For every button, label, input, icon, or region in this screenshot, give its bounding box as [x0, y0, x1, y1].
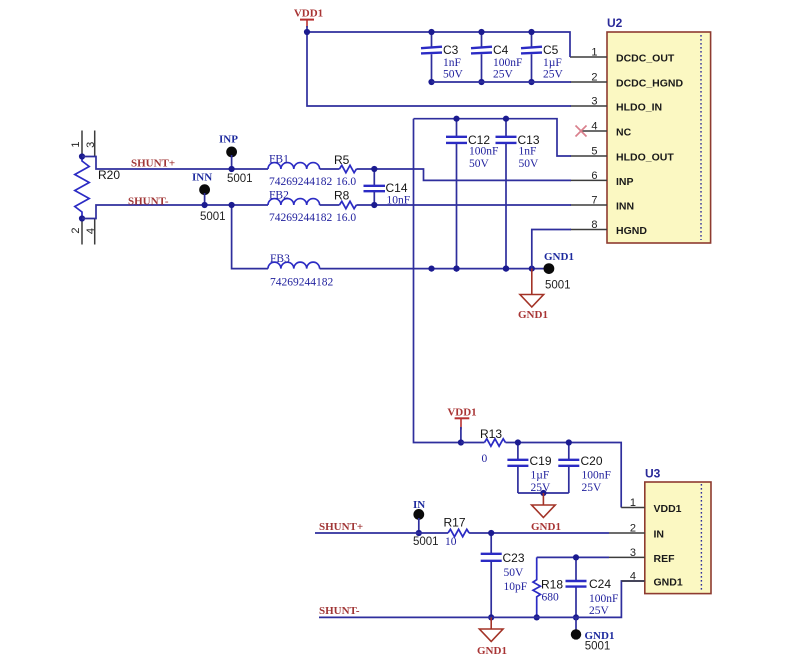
- U3 pin 2 IN: [609, 523, 664, 541]
- node INP: [219, 134, 253, 186]
- resistor R18: [533, 557, 563, 617]
- IC U3 body: [645, 467, 711, 594]
- svg-text:FB3: FB3: [270, 253, 290, 265]
- wire VDD1 top bus to U2 pin1: [307, 32, 570, 57]
- svg-text:1: 1: [591, 47, 597, 59]
- svg-text:R13: R13: [480, 427, 502, 441]
- node VDD1 bus junction: [304, 29, 310, 35]
- U2 pin 5 HLDO_OUT: [570, 146, 674, 164]
- svg-text:R8: R8: [334, 189, 350, 203]
- svg-text:0: 0: [482, 453, 488, 465]
- wire R8 out to U2 pin7: [356, 204, 571, 206]
- wire VDD1 vertical down to HLDO_IN row: [307, 32, 571, 106]
- svg-text:5001: 5001: [227, 173, 253, 185]
- svg-text:1: 1: [630, 497, 636, 509]
- node GND bus junctions: [428, 266, 535, 272]
- wire SHUNT+ (bottom) to R17: [315, 532, 448, 534]
- wire R17 out to U3 pin2: [469, 532, 609, 534]
- svg-text:1µF: 1µF: [531, 470, 550, 482]
- ferrite bead FB3: [268, 253, 334, 289]
- svg-text:50V: 50V: [443, 69, 464, 81]
- svg-text:HLDO_OUT: HLDO_OUT: [616, 152, 674, 164]
- svg-text:25V: 25V: [589, 605, 610, 617]
- U3 pin 4 GND1: [621, 571, 682, 589]
- svg-text:HGND: HGND: [616, 225, 647, 237]
- IC U2 body: [607, 16, 711, 243]
- ground symbol GND1 (middle): [531, 493, 561, 533]
- svg-text:100nF: 100nF: [582, 470, 611, 482]
- svg-text:IN: IN: [654, 529, 665, 541]
- ground symbol GND1 (upper): [518, 269, 548, 321]
- svg-text:SHUNT+: SHUNT+: [131, 158, 175, 170]
- svg-text:NC: NC: [616, 127, 632, 139]
- node INN: [192, 172, 226, 224]
- svg-text:5001: 5001: [413, 536, 439, 548]
- svg-text:3: 3: [630, 547, 636, 559]
- svg-text:C20: C20: [581, 454, 603, 468]
- wire long vertical from C12 bus down to R13 row: [414, 119, 461, 443]
- capacitor C24: [566, 554, 619, 620]
- svg-text:IN: IN: [413, 499, 425, 511]
- svg-text:SHUNT-: SHUNT-: [128, 196, 169, 208]
- svg-text:C5: C5: [543, 43, 559, 57]
- wire C19/C20 bottom bus: [518, 492, 569, 494]
- svg-text:10: 10: [445, 536, 457, 548]
- resistor R8: [334, 189, 356, 225]
- svg-text:50V: 50V: [519, 158, 540, 170]
- svg-text:100nF: 100nF: [589, 593, 618, 605]
- svg-text:4: 4: [591, 121, 597, 133]
- wire R5 out to pin6 jog: [356, 169, 571, 180]
- svg-text:REF: REF: [654, 553, 676, 565]
- svg-text:GND1: GND1: [531, 521, 561, 533]
- svg-text:SHUNT-: SHUNT-: [319, 605, 360, 617]
- svg-text:GND1: GND1: [544, 251, 574, 263]
- svg-text:GND1: GND1: [477, 645, 507, 657]
- svg-text:3: 3: [85, 142, 97, 148]
- svg-text:C4: C4: [493, 43, 509, 57]
- wire REF row to U3 pin3: [537, 556, 609, 558]
- svg-text:C19: C19: [530, 454, 552, 468]
- svg-text:C23: C23: [503, 551, 525, 565]
- svg-text:FB1: FB1: [269, 154, 289, 166]
- svg-text:4: 4: [630, 571, 636, 583]
- svg-text:50V: 50V: [469, 158, 490, 170]
- node IN: [413, 499, 439, 548]
- svg-text:5001: 5001: [585, 641, 611, 653]
- svg-text:50V: 50V: [504, 567, 525, 579]
- svg-text:R5: R5: [334, 153, 350, 167]
- capacitor C14: [364, 166, 411, 208]
- capacitor C3: [421, 29, 464, 85]
- power symbol VDD1 (lower): [447, 406, 476, 429]
- capacitor C20: [558, 439, 611, 494]
- svg-text:R18: R18: [541, 578, 563, 592]
- wire SHUNT- branch down to FB3: [232, 205, 268, 269]
- wire R20 bottom to SHUNT-: [82, 205, 268, 219]
- node GND1 (black dot): [544, 251, 574, 292]
- no-connect X on pin 4: [576, 126, 587, 137]
- svg-text:16.0: 16.0: [336, 212, 356, 224]
- wire FB2 to R8: [320, 204, 340, 206]
- svg-text:INP: INP: [616, 176, 634, 188]
- U2 pin 7 INN: [570, 195, 634, 213]
- svg-text:INN: INN: [616, 201, 634, 213]
- svg-text:GND1: GND1: [654, 577, 683, 589]
- svg-text:R20: R20: [98, 168, 120, 182]
- node VDD1 junction: [458, 439, 464, 445]
- svg-text:VDD1: VDD1: [447, 406, 476, 418]
- svg-text:2: 2: [630, 523, 636, 535]
- svg-text:8: 8: [591, 219, 597, 231]
- U2 pin 6 INP: [570, 170, 634, 188]
- node GND1 (black dot, bottom): [571, 629, 615, 652]
- wire R13 out to U3 pin1: [506, 443, 622, 508]
- wire FB3 out / ground bus: [320, 268, 549, 270]
- capacitor C19: [507, 439, 551, 494]
- svg-text:1nF: 1nF: [443, 57, 461, 69]
- power symbol VDD1 (top): [294, 8, 323, 28]
- svg-text:100nF: 100nF: [469, 146, 498, 158]
- svg-text:U2: U2: [607, 16, 623, 30]
- svg-text:74269244182: 74269244182: [269, 212, 333, 224]
- ground symbol GND1 (bottom): [477, 617, 507, 657]
- resistor R13: [461, 427, 506, 465]
- svg-text:3: 3: [591, 96, 597, 108]
- capacitor C4: [471, 29, 522, 85]
- U2 pin 8 HGND: [570, 219, 647, 237]
- wire R20 top to SHUNT+: [82, 157, 268, 170]
- wire C24 to GND1 node: [575, 617, 577, 634]
- svg-text:C14: C14: [386, 181, 408, 195]
- wire FB1 to R5: [320, 168, 340, 170]
- svg-text:R17: R17: [444, 516, 466, 530]
- svg-text:VDD1: VDD1: [294, 8, 323, 20]
- svg-text:7: 7: [591, 195, 597, 207]
- svg-text:2: 2: [70, 227, 82, 233]
- U3 pin 1 VDD1: [621, 497, 681, 515]
- capacitor C5: [521, 29, 564, 85]
- svg-text:DCDC_HGND: DCDC_HGND: [616, 78, 684, 90]
- svg-text:74269244182: 74269244182: [269, 176, 333, 188]
- svg-text:2: 2: [591, 72, 597, 84]
- svg-text:C3: C3: [443, 43, 459, 57]
- wire HGND pin8 down to ground bus: [532, 230, 571, 269]
- svg-text:25V: 25V: [582, 482, 603, 494]
- svg-text:680: 680: [542, 592, 560, 604]
- svg-text:C24: C24: [589, 577, 611, 591]
- U2 pin 2 DCDC_HGND: [570, 72, 684, 90]
- wire SHUNT- (bottom) bus to U3 pin4: [319, 581, 645, 617]
- resistor R5: [334, 153, 356, 188]
- resistor R20 (shunt connector): [70, 131, 120, 245]
- svg-text:5001: 5001: [200, 211, 226, 223]
- svg-text:DCDC_OUT: DCDC_OUT: [616, 53, 675, 65]
- ferrite bead FB2: [268, 190, 333, 225]
- capacitor C12: [446, 116, 498, 272]
- svg-text:25V: 25V: [493, 69, 514, 81]
- U2 pin 4 NC: [581, 121, 632, 139]
- svg-text:25V: 25V: [543, 69, 564, 81]
- U2 pin 1 DCDC_OUT: [570, 47, 675, 65]
- svg-text:5: 5: [591, 146, 597, 158]
- node branch junction: [229, 202, 235, 208]
- ferrite bead FB1: [268, 154, 333, 189]
- svg-text:6: 6: [591, 170, 597, 182]
- node R18 bottom junction: [534, 614, 540, 620]
- wire C12/C13 bus to U2 pin5: [414, 119, 572, 156]
- capacitor C23: [481, 530, 527, 621]
- wire VDD1 stem to bus: [306, 26, 308, 32]
- svg-text:16.0: 16.0: [336, 176, 356, 188]
- svg-text:INP: INP: [219, 134, 238, 146]
- svg-text:100nF: 100nF: [493, 57, 522, 69]
- svg-text:GND1: GND1: [518, 309, 548, 321]
- wire cap bottom bus to U2 pin2: [432, 81, 572, 83]
- svg-text:1µF: 1µF: [543, 57, 562, 69]
- svg-text:VDD1: VDD1: [654, 503, 682, 515]
- svg-text:10nF: 10nF: [387, 195, 411, 207]
- node C19/C20 gnd junction: [540, 490, 546, 496]
- svg-text:74269244182: 74269244182: [270, 277, 334, 289]
- svg-text:1nF: 1nF: [519, 146, 537, 158]
- svg-text:4: 4: [85, 228, 97, 234]
- svg-text:INN: INN: [192, 172, 212, 184]
- U2 pin 3 HLDO_IN: [570, 96, 662, 114]
- svg-text:U3: U3: [645, 467, 661, 481]
- svg-text:10pF: 10pF: [504, 581, 528, 593]
- svg-text:SHUNT+: SHUNT+: [319, 521, 363, 533]
- svg-text:5001: 5001: [545, 280, 571, 292]
- wire VDD1 stem to R13 row: [460, 427, 462, 443]
- capacitor C13: [496, 116, 540, 272]
- svg-text:FB2: FB2: [269, 190, 289, 202]
- U3 pin 3 REF: [609, 547, 675, 565]
- resistor R17: [444, 516, 470, 549]
- svg-text:1: 1: [70, 141, 82, 147]
- svg-text:HLDO_IN: HLDO_IN: [616, 102, 662, 114]
